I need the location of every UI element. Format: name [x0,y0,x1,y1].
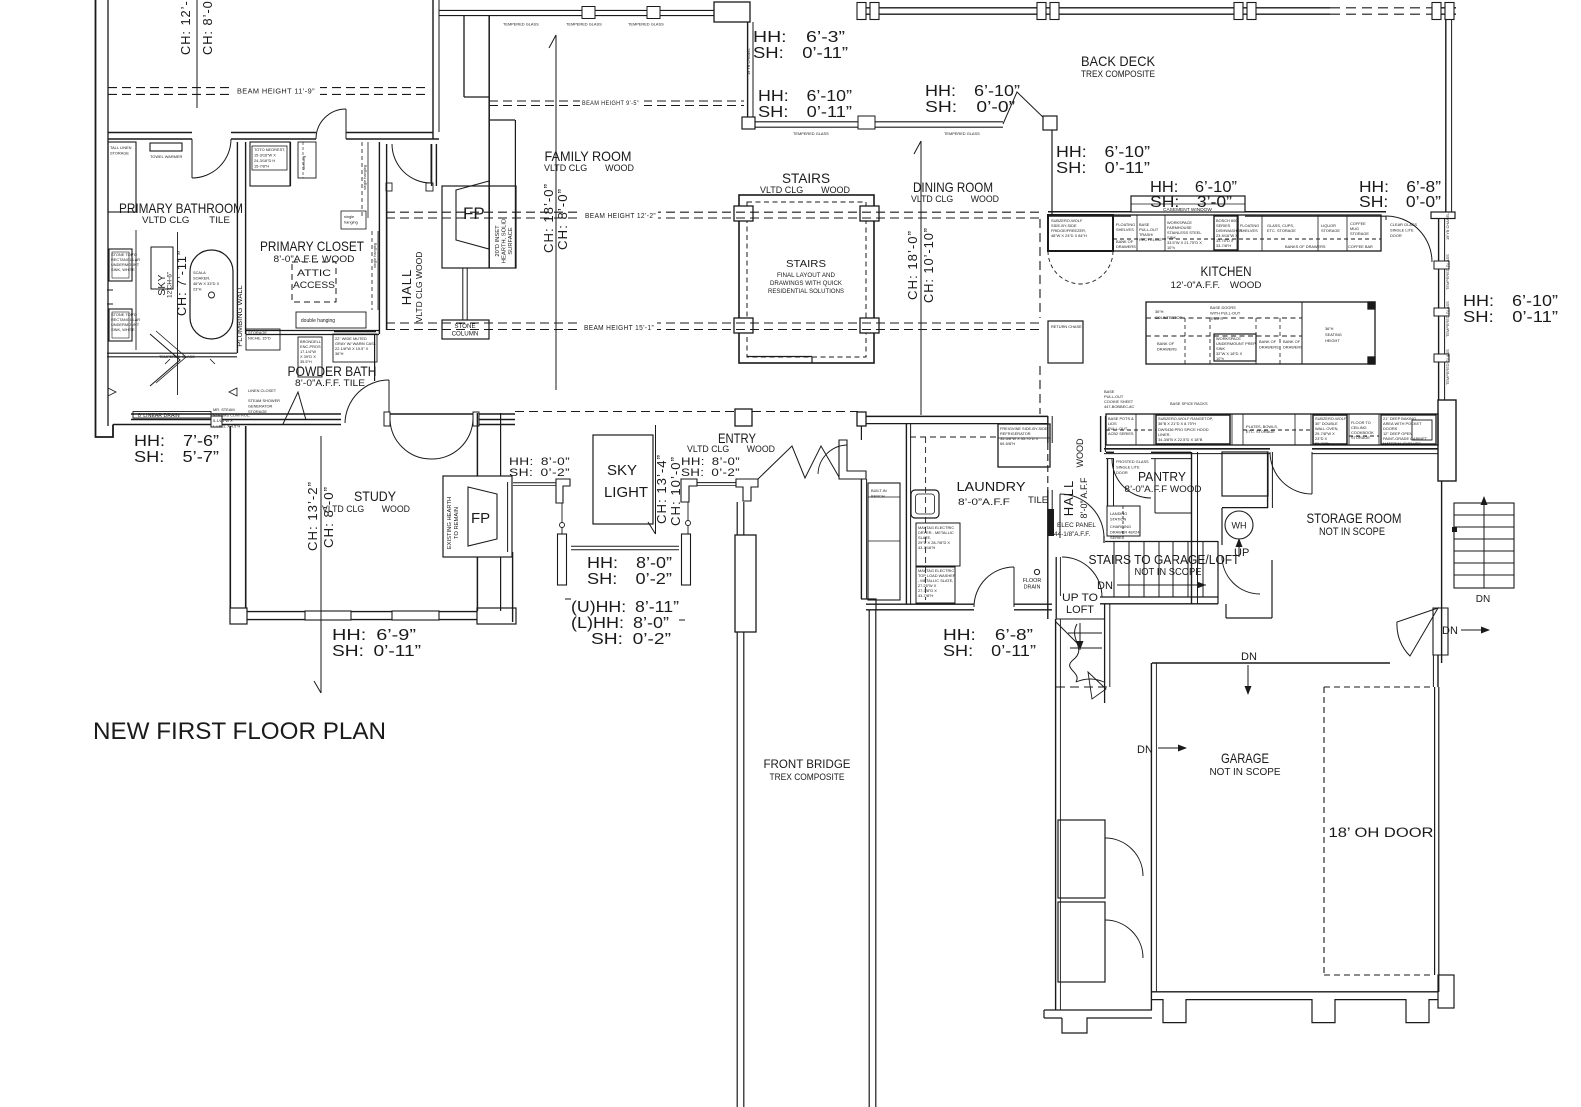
svg-text:PRIMARY BATHROOM: PRIMARY BATHROOM [119,200,243,216]
dining open dashed + return chase [1039,219,1041,318]
svg-text:VLTD CLG WOOD: VLTD CLG WOOD [687,444,775,455]
svg-text:COUNTERTOP: COUNTERTOP [1155,315,1182,320]
svg-text:BUILT-IN: BUILT-IN [871,488,887,493]
garage west wall [1150,663,1152,1010]
linen closet bifold [283,392,306,424]
svg-text:STORAGE: STORAGE [248,409,267,414]
svg-text:HH: 6’-10”: HH: 6’-10” [1463,293,1558,310]
svg-text:CH: 10’-10”: CH: 10’-10” [921,227,936,303]
wall below south cabinets [1104,448,1270,450]
svg-text:TALL LINEN: TALL LINEN [110,145,132,150]
svg-text:SERIES: SERIES [1110,535,1125,540]
kitchen upper cabinets [1048,215,1381,251]
svg-text:DRAWERS: DRAWERS [1157,347,1177,352]
svg-text:50-7/8”h: 50-7/8”h [1315,441,1330,446]
svg-text:SH: 5’-7”: SH: 5’-7” [134,449,219,466]
study west wall [229,426,231,622]
svg-text:TEMPERED GLASS: TEMPERED GLASS [793,131,829,136]
svg-text:NOT IN SCOPE: NOT IN SCOPE [1319,526,1385,538]
svg-text:SH: 0’-11”: SH: 0’-11” [1056,160,1150,177]
svg-text:COFFEE BAR: COFFEE BAR [1348,244,1373,249]
entry doors [758,446,839,479]
svg-text:STORAGE: STORAGE [248,330,267,335]
svg-text:46”W X 33”D X: 46”W X 33”D X [193,281,220,286]
svg-text:(U)HH: 8’-11”: (U)HH: 8’-11” [571,599,679,616]
svg-text:35.5”H: 35.5”H [300,359,312,364]
svg-text:SH: 0’-2”: SH: 0’-2” [509,467,570,479]
svg-text:HEARTH, SOLID: HEARTH, SOLID [502,219,508,263]
svg-text:VLTD CLG TILE: VLTD CLG TILE [142,215,230,226]
svg-text:NOT IN SCOPE: NOT IN SCOPE [1135,567,1202,578]
svg-text:VLTD CLG WOOD: VLTD CLG WOOD [911,194,999,205]
kitchen island [1146,302,1375,364]
svg-text:BEAM HEIGHT 15’-1”: BEAM HEIGHT 15’-1” [584,323,654,332]
svg-text:8’-0”A.F.F WOOD: 8’-0”A.F.F WOOD [1125,484,1203,494]
svg-text:MR. STEAM: MR. STEAM [213,407,235,412]
svg-text:WH: WH [1232,521,1247,531]
svg-text:8’-0”A.F.F: 8’-0”A.F.F [958,497,1010,508]
svg-text:WOOD: WOOD [1075,438,1085,467]
svg-text:DRAWINGS WITH QUICK: DRAWINGS WITH QUICK [770,280,842,287]
svg-text:FRONT BRIDGE: FRONT BRIDGE [764,759,851,771]
svg-text:43-7/16”H: 43-7/16”H [918,545,935,550]
svg-text:BANK OF: BANK OF [1157,341,1175,346]
svg-text:DRAWERS: DRAWERS [1283,345,1303,350]
svg-text:TOTO NEOREST,: TOTO NEOREST, [254,147,285,152]
svg-text:ETC. STORAGE: ETC. STORAGE [1267,228,1296,233]
shower glass + drain [107,352,237,354]
svg-text:FP: FP [463,204,485,223]
svg-text:36”H: 36”H [1155,309,1164,314]
svg-text:HH: 6’-10”: HH: 6’-10” [758,88,852,105]
bedroom CH section line [196,0,198,108]
study section line [320,436,322,693]
pantry door [1060,494,1104,538]
entry posts/window [681,479,697,502]
svg-text:RESIDENTIAL SOLUTIONS: RESIDENTIAL SOLUTIONS [768,288,844,295]
svg-text:STAIRS TO GARAGE/LOFT: STAIRS TO GARAGE/LOFT [1089,552,1240,567]
tall linen [108,142,136,212]
svg-text:single hanging: single hanging [372,243,377,268]
svg-text:43-7/8”H: 43-7/8”H [918,593,933,598]
closet hanging [361,142,363,218]
garage north wall [1152,662,1390,664]
WC [250,142,290,186]
powder door [345,380,389,423]
svg-text:15-3/16”W X: 15-3/16”W X [254,153,276,158]
svg-text:STAIRS: STAIRS [786,258,826,270]
svg-text:single hanging: single hanging [362,165,367,190]
svg-text:48”W X 24”D X 84”H: 48”W X 24”D X 84”H [1051,233,1087,238]
svg-text:CH: 12’-0”: CH: 12’-0” [178,0,193,55]
family section line [555,35,557,390]
svg-text:LINEN CLOSET: LINEN CLOSET [248,388,277,393]
kitchen glass door [1386,216,1432,262]
family north window [439,9,714,11]
svg-text:(L)HH: 8’-0”: (L)HH: 8’-0” [571,615,669,632]
svg-text:POWDER BATH: POWDER BATH [288,363,377,379]
svg-text:KITCHEN: KITCHEN [1201,263,1252,279]
svg-text:FP: FP [471,510,490,527]
svg-text:SOAKER,: SOAKER, [193,276,210,281]
garage side door [1397,608,1438,656]
svg-text:20”D INSET: 20”D INSET [495,225,501,257]
svg-text:TREX COMPOSITE: TREX COMPOSITE [770,772,845,782]
study east wall / FP [476,413,478,476]
hall right wall + FP family [431,144,433,186]
svg-text:CH: 18’-0”: CH: 18’-0” [541,183,556,253]
svg-text:TILE: TILE [1028,495,1048,506]
svg-text:ATTIC: ATTIC [297,268,331,279]
svg-text:BENCH: BENCH [871,494,885,499]
svg-text:HEIGHT: HEIGHT [1325,338,1340,343]
svg-text:CH: 13’-4”: CH: 13’-4” [654,454,669,524]
svg-text:TO REMAIN: TO REMAIN [454,507,460,539]
svg-text:STATION: STATION [1110,517,1126,522]
south wall band of suite [113,414,515,425]
svg-text:NOT IN SCOPE: NOT IN SCOPE [1210,767,1281,778]
svg-text:DN: DN [1137,744,1153,756]
winder stairs [1056,618,1104,620]
svg-text:36”H: 36”H [1325,326,1334,331]
svg-text:SURFACE: SURFACE [508,227,514,255]
svg-text:19’YB CHANEL: 19’YB CHANEL [746,47,751,75]
svg-text:SH: 0’-2”: SH: 0’-2” [681,467,740,479]
svg-text:single: single [344,214,354,219]
svg-text:VLTD CLG WOOD: VLTD CLG WOOD [544,163,634,174]
mud west wall [860,426,862,440]
svg-text:15-7/8”H: 15-7/8”H [254,164,269,169]
svg-text:ACB2 SERIES: ACB2 SERIES [1108,431,1134,436]
vanities [109,249,132,281]
svg-text:UP TO: UP TO [1062,592,1098,604]
svg-text:DN: DN [1476,594,1490,605]
svg-text:34-3/8”B X 22.5”D X 18”B: 34-3/8”B X 22.5”D X 18”B [1158,437,1203,442]
svg-text:18’ OH DOOR: 18’ OH DOOR [1329,825,1434,840]
svg-text:CASEMENT WINDOW: CASEMENT WINDOW [1163,207,1212,213]
garage DN arrows [1247,665,1249,694]
stair hall door [1062,557,1102,597]
svg-text:RETURN CHASE: RETURN CHASE [1051,324,1082,329]
deck railing [861,7,1330,9]
towel warmer [150,143,182,151]
svg-text:GARAGE: GARAGE [1221,750,1269,766]
svg-text:10”h: 10”h [1216,356,1224,361]
WH closet / landing [1222,507,1268,509]
svg-text:10”h: 10”h [1167,245,1175,250]
svg-text:LOFT: LOFT [1066,604,1094,616]
svg-text:SH: 0’-0”: SH: 0’-0” [1359,194,1441,211]
svg-text:SINK, WHITE: SINK, WHITE [111,327,135,332]
svg-text:HALL: HALL [399,269,414,306]
svg-text:PLUMBING WALL: PLUMBING WALL [235,285,244,346]
corridor/garage footing [1044,1009,1152,1011]
svg-text:CH: 8’-0”: CH: 8’-0” [200,0,215,55]
svg-text:STONE: STONE [454,323,475,330]
svg-text:STORAGE: STORAGE [1351,435,1370,440]
svg-text:TEMPERED GLASS: TEMPERED GLASS [628,22,664,27]
kitchen north wall + casement [1048,211,1131,213]
svg-text:DRAWERS: DRAWERS [1116,244,1136,249]
skylight [593,435,653,524]
svg-text:12’-0”A.F.F. WOOD: 12’-0”A.F.F. WOOD [1171,280,1262,291]
svg-text:FINAL LAYOUT AND: FINAL LAYOUT AND [777,272,835,279]
stairs to garage [1105,541,1218,543]
svg-text:8’ LINEAR DRAIN: 8’ LINEAR DRAIN [138,413,180,419]
svg-text:SINK, WHITE: SINK, WHITE [111,267,135,272]
svg-text:TRAYS: TRAYS [1210,316,1223,321]
storage niche [246,329,280,350]
svg-text:TEMPERED GLASS: TEMPERED GLASS [1445,301,1450,337]
svg-text:STAIRS: STAIRS [782,170,830,186]
bathroom skylight box [151,247,173,289]
svg-text:STORAGE: STORAGE [1321,228,1340,233]
beams dashed [108,88,1040,412]
rotated CH labels [174,0,936,551]
svg-text:UP: UP [1234,547,1249,559]
HH/SH callouts [134,29,1558,660]
svg-text:DOOR: DOOR [1116,470,1128,475]
bedroom/bath wall horizontal [108,133,439,140]
svg-text:HALL: HALL [1061,480,1076,517]
shower heads [108,388,237,396]
svg-text:TEMPERED GLASS: TEMPERED GLASS [1445,254,1450,290]
svg-text:447-BOBBEC-8C: 447-BOBBEC-8C [1104,404,1134,409]
hall top door [392,144,431,183]
svg-text:ELEC PANEL: ELEC PANEL [1057,522,1096,529]
svg-text:STORAGE: STORAGE [110,151,129,156]
svg-text:DRAWER 48X24: DRAWER 48X24 [1110,530,1140,535]
mud south wall + laundry [866,603,974,605]
svg-text:69-5/8”H: 69-5/8”H [1000,441,1015,446]
svg-text:FLOOR: FLOOR [1023,578,1042,584]
svg-text:STEAMS CONTROL,: STEAMS CONTROL, [213,413,250,418]
svg-text:HH: 7’-6”: HH: 7’-6” [134,433,219,450]
svg-text:DRAIN: DRAIN [1024,585,1041,591]
svg-text:CH: 8’-0”: CH: 8’-0” [555,188,570,250]
floor drain [1034,569,1039,574]
door to upper room [316,109,346,139]
svg-text:36”H: 36”H [335,351,344,356]
svg-text:DOOR: DOOR [1390,233,1402,238]
svg-text:SH: 0’-2”: SH: 0’-2” [587,571,672,588]
svg-text:DN: DN [1442,625,1458,637]
east wall [1445,19,1447,212]
18' OH door [1323,687,1325,975]
svg-text:TEMPERED GLASS: TEMPERED GLASS [159,354,195,359]
svg-text:CLEAR GLASS: CLEAR GLASS [1390,222,1417,227]
svg-text:DINING ROOM: DINING ROOM [913,179,993,195]
svg-text:23”H: 23”H [193,287,202,292]
shelving band [298,142,316,178]
kitchen south cabinets [1106,414,1438,445]
svg-text:36”B X 21”D X 8.75”H: 36”B X 21”D X 8.75”H [1158,421,1196,426]
outer left wall [96,0,114,437]
svg-text:BASE SPICE RACKS: BASE SPICE RACKS [1170,401,1208,406]
svg-text:DRAWERS: DRAWERS [1259,345,1279,350]
tub [190,250,233,339]
svg-text:SCALA: SCALA [193,270,206,275]
svg-text:BACK DECK: BACK DECK [1081,53,1156,69]
laundry walls [866,415,1048,417]
svg-text:L-LBCL X 4.5”H: L-LBCL X 4.5”H [213,424,241,429]
svg-text:TEMPERED GLASS: TEMPERED GLASS [566,22,602,27]
svg-text:SHELVES: SHELVES [1116,227,1134,232]
svg-text:double hanging: double hanging [301,318,335,324]
dining section line [920,141,922,415]
center stairs [739,195,874,363]
svg-text:SHELVES: SHELVES [1240,228,1258,233]
storage west wall [1267,452,1269,508]
closet east wall / powder east [378,142,380,334]
svg-text:CH: 10’-0”: CH: 10’-0” [668,456,683,526]
svg-text:TEMPERED GLASS: TEMPERED GLASS [503,22,539,27]
svg-text:HH: 6’-10”: HH: 6’-10” [1056,144,1150,161]
svg-text:CH: 18’-0”: CH: 18’-0” [905,230,920,300]
svg-text:BEAM HEIGHT 12’-2”: BEAM HEIGHT 12’-2” [585,211,656,220]
svg-text:LANDING: LANDING [1110,511,1127,516]
svg-text:HH: 6’-8”: HH: 6’-8” [943,627,1033,644]
svg-text:BANK OF: BANK OF [1259,339,1277,344]
study SE windows [556,479,570,503]
svg-text:NICHE, 15”D: NICHE, 15”D [248,336,271,341]
svg-text:TOWEL WARMER: TOWEL WARMER [150,154,182,159]
svg-text:SH: 0’-11”: SH: 0’-11” [943,643,1036,660]
svg-text:hanging: hanging [344,220,358,225]
svg-text:8’-0” A.F.F: 8’-0” A.F.F [1079,477,1089,519]
svg-text:44-1/8”A.F.F.: 44-1/8”A.F.F. [1054,531,1090,538]
svg-text:SH: 0’-11”: SH: 0’-11” [1463,309,1558,326]
bench [868,483,900,600]
powder fixtures [298,337,322,377]
svg-text:SH: 0’-2”: SH: 0’-2” [591,631,671,648]
svg-text:COLUMN: COLUMN [452,331,479,338]
tiny annotation texts [110,22,1450,599]
svg-text:DN: DN [1241,651,1257,663]
svg-text:HH: 8’-0”: HH: 8’-0” [587,555,672,572]
svg-text:SKY: SKY [607,462,637,479]
svg-text:5-1/16”W X: 5-1/16”W X [213,418,233,423]
svg-text:SH: 0’-11”: SH: 0’-11” [753,45,848,62]
svg-text:24-3/16”D H: 24-3/16”D H [254,158,275,163]
svg-text:SINGLE LITE: SINGLE LITE [1390,228,1414,233]
svg-text:RECYCLING: RECYCLING [1139,237,1162,242]
svg-text:BANK OF: BANK OF [1283,339,1301,344]
study double doors [390,420,431,460]
family east wall [747,22,749,117]
svg-text:ACCESS: ACCESS [293,280,335,291]
svg-text:SINGLE LITE: SINGLE LITE [1116,465,1140,470]
svg-text:NEW FIRST FLOOR PLAN: NEW FIRST FLOOR PLAN [93,718,386,745]
svg-text:SH: 0’-0”: SH: 0’-0” [925,99,1015,116]
svg-text:BEAM HEIGHT 11’-9”: BEAM HEIGHT 11’-9” [237,87,315,96]
svg-text:STORAGE: STORAGE [1350,231,1369,236]
svg-text:HH: 6’-3”: HH: 6’-3” [753,29,845,46]
svg-text:FROSTED GLASS: FROSTED GLASS [1116,459,1149,464]
svg-text:TREX COMPOSITE: TREX COMPOSITE [1081,69,1155,80]
svg-text:MATERIAL SHELVES: MATERIAL SHELVES [1383,441,1421,446]
svg-text:WITH PULL-OUT: WITH PULL-OUT [1210,311,1241,316]
svg-text:EXISTING HEARTH: EXISTING HEARTH [447,497,453,549]
pantry [1191,452,1193,604]
svg-text:LIGHT: LIGHT [604,484,648,501]
svg-text:VLTD CLG WOOD: VLTD CLG WOOD [760,185,850,196]
svg-text:CH: 8’-0”: CH: 8’-0” [321,486,336,548]
svg-text:HH: 6’-9”: HH: 6’-9” [332,627,416,644]
plumbing wall [236,142,238,353]
svg-text:LAUNDRY: LAUNDRY [957,479,1026,494]
svg-text:SEATING: SEATING [1325,332,1342,337]
study south wall + windows [230,611,515,613]
svg-text:STUDY: STUDY [354,488,397,504]
bath entry door [192,139,231,178]
svg-text:CHARGING: CHARGING [1110,524,1131,529]
corridor closets [1058,820,1105,898]
svg-text:12’CH-6”: 12’CH-6” [167,272,174,298]
svg-text:19’YB CHANEL: 19’YB CHANEL [1445,212,1450,240]
svg-text:TEMPERED GLASS: TEMPERED GLASS [1445,349,1450,385]
svg-text:DN: DN [1097,580,1113,592]
family chimney/west [463,16,465,97]
corridor walls [1055,619,1057,1010]
svg-text:33-7/8”H: 33-7/8”H [1216,243,1231,248]
svg-text:PRIMARY CLOSET: PRIMARY CLOSET [260,238,364,254]
svg-text:BASE DOORS: BASE DOORS [1210,305,1236,310]
sconce ticks [107,290,113,304]
svg-text:PANTRY: PANTRY [1138,469,1186,484]
beam labels with halo [234,85,658,332]
svg-text:VLTD CLG WOOD: VLTD CLG WOOD [414,252,424,323]
svg-text:SH: 0’-11”: SH: 0’-11” [332,643,421,660]
svg-text:HH: 6’-10”: HH: 6’-10” [925,83,1020,100]
storage door [1270,452,1312,494]
svg-text:BANKS OF DRAWERS: BANKS OF DRAWERS [1285,244,1326,249]
svg-text:8’-0”A.F.F. WOOD: 8’-0”A.F.F. WOOD [274,254,355,265]
svg-text:ETC. STORAGE: ETC. STORAGE [1246,429,1275,434]
svg-text:SH: 0’-11”: SH: 0’-11” [758,104,852,121]
svg-text:CH: 7’-11”: CH: 7’-11” [174,250,189,316]
front bridge rails [736,502,738,1107]
svg-text:TEMPERED GLASS: TEMPERED GLASS [944,131,980,136]
svg-text:STEAM SHOWER: STEAM SHOWER [248,398,280,403]
svg-text:STORAGE ROOM: STORAGE ROOM [1307,510,1402,526]
svg-text:shelving: shelving [301,156,306,170]
svg-text:GENERATOR: GENERATOR [248,404,272,409]
kitchen north window wall [755,121,1003,123]
mud hall walls [1047,416,1049,443]
svg-text:CH: 13’-2”: CH: 13’-2” [305,481,320,551]
exterior stairs east [1454,503,1514,588]
svg-text:8’-0”A.F.F. TILE: 8’-0”A.F.F. TILE [295,378,365,389]
powder/closet divider wall [246,330,379,332]
svg-text:BEAM HEIGHT 9’-5”: BEAM HEIGHT 9’-5” [582,100,639,107]
svg-text:FAMILY ROOM: FAMILY ROOM [545,148,632,164]
